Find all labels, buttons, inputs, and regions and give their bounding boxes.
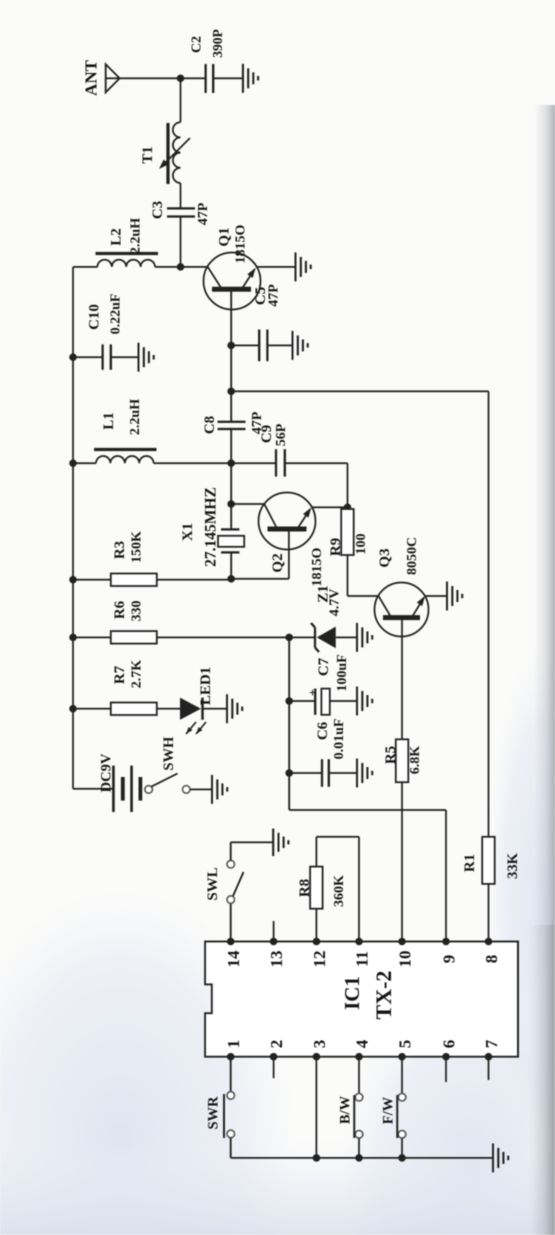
wire R8 to pin11 xyxy=(315,837,317,867)
LED LED1 xyxy=(180,698,201,720)
svg-text:C10: C10 xyxy=(86,304,102,330)
svg-text:2.2uH: 2.2uH xyxy=(128,218,143,254)
capacitor C10 xyxy=(101,344,103,369)
ground C7 xyxy=(356,687,358,716)
capacitor C8 xyxy=(230,391,232,422)
wire rail to R6 xyxy=(73,636,111,638)
svg-text:R5: R5 xyxy=(383,746,399,764)
wire L1 node to C9 xyxy=(231,462,276,464)
node rail-R6 xyxy=(69,634,77,642)
wire rail to L1 xyxy=(73,462,96,464)
svg-text:IC1: IC1 xyxy=(340,976,364,1010)
svg-text:C3: C3 xyxy=(150,201,166,219)
svg-text:C2: C2 xyxy=(190,36,205,53)
svg-text:X1: X1 xyxy=(180,523,196,541)
wire rail corner to L2 xyxy=(73,266,97,268)
svg-text:Q1: Q1 xyxy=(217,227,233,246)
ground C6 xyxy=(356,759,358,788)
svg-text:Q3: Q3 xyxy=(377,548,393,567)
svg-text:5: 5 xyxy=(396,1040,415,1049)
wire B to C3 xyxy=(180,217,182,267)
resistor R8 xyxy=(310,867,323,909)
svg-text:6.8K: 6.8K xyxy=(408,746,423,775)
wire C2 to ground xyxy=(213,77,243,79)
svg-text:360K: 360K xyxy=(332,875,347,907)
node J2 C7 xyxy=(285,697,293,705)
svg-text:4: 4 xyxy=(353,1039,372,1048)
switch F/W pushbutton xyxy=(398,1093,406,1101)
wire pin8 feedback line xyxy=(488,391,490,941)
svg-text:Q2: Q2 xyxy=(270,553,286,572)
svg-text:330: 330 xyxy=(130,601,145,622)
node A junction xyxy=(177,75,185,83)
svg-text:ANT: ANT xyxy=(82,59,101,96)
resistor R5 xyxy=(396,739,409,782)
svg-text:C6: C6 xyxy=(315,721,331,740)
crystal X1 xyxy=(230,552,232,578)
wire pin7 stub xyxy=(488,1057,490,1080)
svg-text:T1: T1 xyxy=(140,146,156,164)
capacitor C5 xyxy=(231,344,259,346)
wire rail to battery xyxy=(73,788,113,790)
wire rail to R3 xyxy=(73,579,111,581)
wire node line to pin9 xyxy=(289,809,446,811)
ground C2 xyxy=(242,64,244,93)
svg-text:27.145MHZ: 27.145MHZ xyxy=(203,487,220,567)
svg-text:6: 6 xyxy=(440,1040,459,1049)
svg-text:LED1: LED1 xyxy=(198,667,214,705)
node Q2 collector junction xyxy=(227,500,235,508)
wire Q1 emitter to ground xyxy=(256,266,296,268)
resistor R6 xyxy=(111,631,157,644)
wire L2 to node B xyxy=(155,266,181,268)
svg-text:C7: C7 xyxy=(316,657,332,676)
wire F/W to bus xyxy=(401,1138,403,1158)
ground Q1 emitter xyxy=(294,252,296,281)
node L1/C9 junction xyxy=(227,459,235,467)
ground SWL xyxy=(272,829,274,857)
wire C5 to ground xyxy=(267,344,292,346)
svg-text:9: 9 xyxy=(440,955,459,964)
node rail-C10 xyxy=(69,353,77,361)
node rail-R7 xyxy=(69,705,77,713)
node bus pin4 xyxy=(355,1154,363,1162)
wire pin6 stub xyxy=(445,1057,447,1082)
wire Zener node line xyxy=(288,637,290,810)
svg-text:3: 3 xyxy=(310,1040,329,1049)
resistor R1 xyxy=(482,837,495,884)
capacitor C7 electrolytic xyxy=(289,700,315,702)
IC U1 IC1 TX-2 body xyxy=(205,942,518,1057)
wire C3 to T1 xyxy=(180,183,182,208)
svg-text:2.2uH: 2.2uH xyxy=(128,399,143,435)
inductor L1 xyxy=(96,456,154,463)
svg-text:8050C: 8050C xyxy=(405,537,420,575)
svg-text:4.7V: 4.7V xyxy=(328,589,343,617)
capacitor C2 xyxy=(204,64,206,93)
node bus pin3 xyxy=(313,1154,321,1162)
svg-text:SWH: SWH xyxy=(161,736,177,771)
svg-text:DC9V: DC9V xyxy=(98,753,114,792)
svg-text:11: 11 xyxy=(353,951,372,967)
node rail-R3 xyxy=(69,576,77,584)
wire base line to C8 xyxy=(230,345,232,391)
wire +9V supply rail xyxy=(72,267,74,789)
resistor R9 xyxy=(347,507,349,596)
wire C10 to ground xyxy=(111,356,139,358)
wire pin13 stub xyxy=(273,921,275,942)
wire pin3 to bus xyxy=(315,1057,317,1158)
wire rail to C10 xyxy=(73,356,103,358)
ground Z1 xyxy=(356,623,358,652)
node bus pin5 xyxy=(398,1154,406,1162)
wire rail to R7 xyxy=(73,708,111,710)
wire R9 to Q3 collector xyxy=(348,595,379,597)
svg-text:R6: R6 xyxy=(112,600,128,619)
node J3 C6 xyxy=(285,769,293,777)
svg-text:47P: 47P xyxy=(196,202,211,225)
wire LED1 to ground xyxy=(203,708,228,710)
switch SWL xyxy=(227,896,235,904)
svg-text:1815O: 1815O xyxy=(310,547,325,586)
capacitor C3 xyxy=(167,215,195,217)
wire pin4 to B/W xyxy=(358,1057,360,1094)
wire L1 to base line xyxy=(154,462,232,464)
wire Q2 emitter to R9 node xyxy=(312,506,348,508)
svg-text:R9: R9 xyxy=(328,538,344,556)
node C5 junction xyxy=(227,342,235,350)
antenna ANT xyxy=(106,64,120,92)
IC pin dots left side 1-7 xyxy=(227,1053,235,1061)
wire SWR to gnd bus xyxy=(230,1138,232,1158)
wire SWL to ground xyxy=(230,842,232,860)
svg-text:1815O: 1815O xyxy=(233,224,248,263)
ground C5 xyxy=(291,331,293,360)
svg-text:+: + xyxy=(305,689,320,696)
svg-text:TX-2: TX-2 xyxy=(371,971,396,1020)
wire C7 to ground xyxy=(330,700,357,702)
ground LED1 xyxy=(226,694,228,723)
svg-text:L2: L2 xyxy=(109,228,125,246)
svg-text:R8: R8 xyxy=(297,879,313,897)
svg-text:13: 13 xyxy=(267,951,286,968)
switch SWR pushbutton xyxy=(227,1092,235,1100)
svg-text:7: 7 xyxy=(482,1039,501,1048)
wire pin10 to R5 to Q3 base xyxy=(401,618,403,942)
wire Q2 base lead xyxy=(288,529,290,579)
svg-text:14: 14 xyxy=(224,950,243,968)
wire C6 to ground xyxy=(329,772,357,774)
wire pin5 to F/W xyxy=(401,1057,403,1094)
ground battery xyxy=(211,775,213,804)
wire Q1 base xyxy=(230,289,232,345)
svg-text:0.22uF: 0.22uF xyxy=(109,294,124,335)
svg-text:B/W: B/W xyxy=(338,1095,354,1124)
resistor R3 xyxy=(111,574,157,587)
wire B/W to bus xyxy=(358,1138,360,1158)
wire R7 to LED1 xyxy=(157,708,180,710)
wire pin2 stub xyxy=(273,1057,275,1079)
wire A to C2 xyxy=(181,77,206,79)
node J1 zener xyxy=(285,634,293,642)
node B junction xyxy=(177,263,185,271)
scan tint patches xyxy=(0,890,295,1235)
svg-text:56P: 56P xyxy=(274,423,289,446)
battery DC9V xyxy=(112,766,115,812)
switch SWH xyxy=(145,786,153,794)
svg-text:8: 8 xyxy=(482,955,501,964)
svg-text:SWL: SWL xyxy=(205,867,221,900)
wire Z1 to ground xyxy=(336,636,357,638)
wire pin14 to SWL xyxy=(230,903,232,941)
svg-text:1: 1 xyxy=(224,1040,243,1049)
IC pin dots right side 14-8 xyxy=(227,938,235,946)
svg-text:150K: 150K xyxy=(130,531,145,563)
ground C10 xyxy=(137,343,139,372)
svg-text:R7: R7 xyxy=(112,665,128,684)
node X1 junction xyxy=(227,575,235,583)
svg-text:100uF: 100uF xyxy=(335,654,350,691)
wire Q1 collector to node B xyxy=(181,266,208,268)
ground main bus xyxy=(492,1143,494,1172)
wire Q2 collector xyxy=(231,503,264,505)
zener Z1 xyxy=(289,636,315,638)
svg-text:12: 12 xyxy=(310,951,329,968)
svg-text:390P: 390P xyxy=(210,29,225,58)
ground Q3 emitter xyxy=(446,582,448,611)
node feedback drop junction xyxy=(227,388,235,396)
wire C9 to R9 node xyxy=(285,462,348,464)
transistor Q2 xyxy=(259,493,316,550)
wire node to X1 line xyxy=(230,463,232,502)
wire R3 to X1 node xyxy=(157,579,231,581)
svg-text:SWR: SWR xyxy=(205,1096,221,1130)
wire Q3 emitter to ground xyxy=(425,595,447,597)
wire C8 to L1 node xyxy=(230,429,232,463)
wire pin1 to SWR xyxy=(230,1057,232,1092)
svg-text:C9: C9 xyxy=(259,425,275,443)
svg-text:47P: 47P xyxy=(267,284,282,307)
wire pin12 to R8 xyxy=(315,909,317,942)
switch B/W pushbutton xyxy=(355,1093,363,1101)
wire SWH to ground xyxy=(190,788,212,790)
svg-text:2: 2 xyxy=(267,1040,286,1049)
svg-text:0.01uF: 0.01uF xyxy=(332,719,347,760)
transistor Q1 xyxy=(204,253,261,310)
svg-text:F/W: F/W xyxy=(381,1096,397,1124)
node R9 junction xyxy=(344,504,352,512)
svg-text:R3: R3 xyxy=(112,541,128,559)
capacitor C9 xyxy=(275,449,277,476)
svg-text:C8: C8 xyxy=(202,416,218,434)
svg-text:33K: 33K xyxy=(505,852,521,879)
transistor Q3 xyxy=(375,583,429,637)
capacitor C6 xyxy=(289,772,322,774)
wire T1 to node A xyxy=(180,78,182,122)
node rail-L1 xyxy=(69,459,77,467)
svg-text:R1: R1 xyxy=(462,854,478,872)
svg-text:L1: L1 xyxy=(101,412,117,430)
inductor L2 xyxy=(97,260,155,267)
svg-text:100: 100 xyxy=(354,534,369,555)
transformer T1 adjustable coil xyxy=(173,122,181,183)
wire R6 to node V-reg xyxy=(157,636,289,638)
svg-text:2.7K: 2.7K xyxy=(130,660,145,689)
wire ground bus xyxy=(231,1157,493,1159)
resistor R7 xyxy=(111,703,157,716)
svg-text:10: 10 xyxy=(396,951,415,968)
